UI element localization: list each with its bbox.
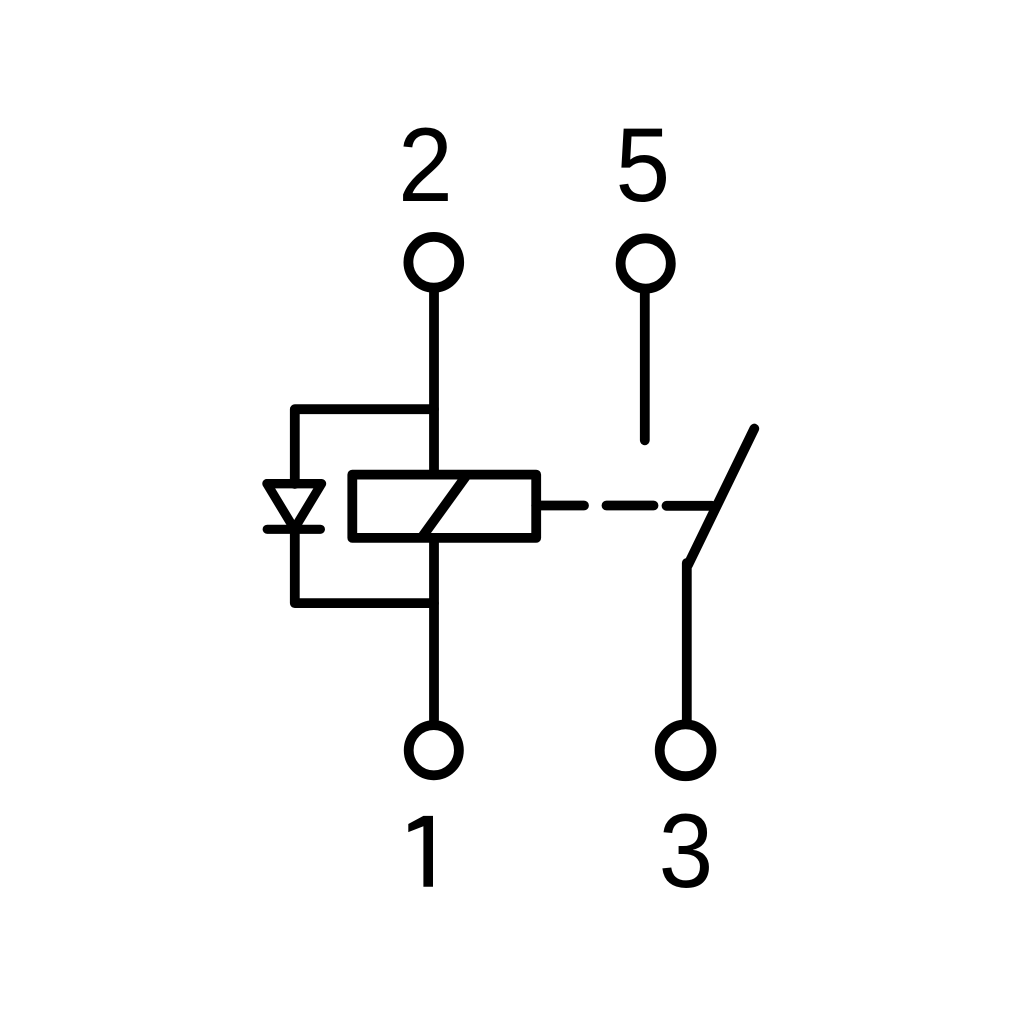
svg-text:2: 2 (398, 107, 453, 223)
svg-text:3: 3 (659, 793, 714, 909)
svg-text:5: 5 (615, 107, 670, 223)
